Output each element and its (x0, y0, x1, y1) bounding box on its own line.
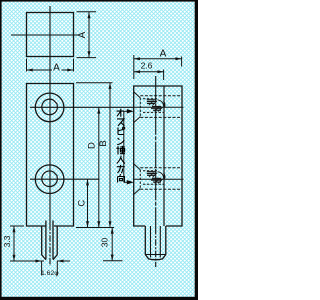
side view top contact centerline (134, 106, 184, 108)
frame border left (0, 0, 2, 300)
svg-text:B: B (98, 140, 109, 146)
dimension 1.62 phi (front pin diameter, bottom) (42, 261, 70, 276)
svg-text:A: A (160, 49, 167, 60)
insertion arrow bottom (127, 180, 134, 184)
svg-text:A: A (53, 63, 60, 74)
dimension A (top view width, bottom) (27, 59, 74, 72)
hole top inner circle with chamfer flat (42, 99, 58, 115)
dimension 2.6 (side view, shroud depth) (134, 70, 164, 81)
svg-text:3.3: 3.3 (2, 235, 12, 247)
insertion arrow top (127, 109, 134, 113)
hole top centerline (30, 106, 134, 108)
dimension A (side view width, top) (134, 55, 182, 79)
svg-text:30: 30 (100, 238, 110, 248)
frame border bottom (0, 297, 198, 300)
front view body outline (27, 84, 74, 227)
svg-text:C: C (77, 200, 88, 207)
side view bottom contact centerline (134, 178, 184, 180)
hole bottom centerline (30, 178, 100, 180)
insertion direction leader bracket (124, 111, 128, 182)
svg-text:1.62φ: 1.62φ (41, 270, 59, 277)
dimension C (right of front view) (87, 179, 89, 227)
hole top outer circle (35, 93, 64, 122)
side view top contact detail (134, 92, 182, 123)
side view pin (145, 226, 166, 260)
centerline horizontal (top view) (11, 34, 79, 36)
svg-text:D: D (87, 142, 98, 149)
svg-text:A: A (77, 31, 88, 38)
side view internal vertical line (163, 86, 165, 226)
side view bottom contact detail (134, 164, 182, 195)
front pin left prong (42, 221, 46, 260)
dimension 3.3 (front pin length, left) (10, 226, 44, 261)
dimension B (right of front view) (76, 83, 114, 228)
background crosshatch (0, 0, 198, 300)
frame border right (195, 0, 198, 300)
vertical japanese note: o-su-pin sounyuu houkou (116, 109, 125, 183)
side view body outline (134, 86, 182, 226)
svg-text:2.6: 2.6 (141, 61, 153, 71)
dimension D (right of front view) (98, 107, 100, 227)
hole bottom inner circle with chamfer flat (42, 171, 58, 187)
front pin right prong (53, 221, 57, 260)
side view centerline (155, 76, 157, 228)
centerline vertical (top view + front view) (49, 6, 51, 224)
frame border top (0, 0, 198, 2)
top view body (square) (27, 13, 74, 57)
dimension A (top view height, right side) (77, 12, 97, 58)
dimension 30 (side pin length) (103, 228, 123, 261)
hole bottom outer circle (35, 165, 64, 194)
